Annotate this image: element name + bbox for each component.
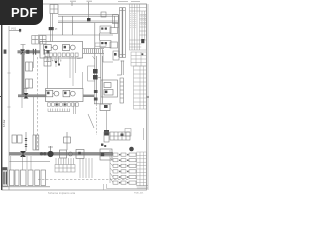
dashed battery-limit vertical bbox=[37, 57, 39, 150]
terminal dark dots bbox=[119, 154, 128, 184]
lower connection block bbox=[103, 50, 119, 62]
bottom filter box bbox=[60, 150, 85, 159]
dryer drop line bbox=[47, 66, 49, 89]
small table top of bottom-right bbox=[104, 132, 130, 142]
legend tanks bbox=[3, 170, 46, 186]
bypass loop bbox=[88, 66, 95, 81]
revision strip right middle bbox=[134, 66, 147, 109]
legend header dark bbox=[2, 167, 7, 170]
dark cell in small table bbox=[121, 134, 124, 137]
flange pair on pipe1 bbox=[33, 49, 34, 55]
top pipe 1 double line bbox=[58, 15, 118, 17]
skid2 motor dots bbox=[47, 92, 49, 95]
skid1 base squares row bbox=[45, 53, 78, 57]
window box pair above pipe1 bbox=[32, 36, 46, 45]
top tick marks bbox=[72, 2, 89, 18]
vertical gray pipe bbox=[22, 53, 25, 95]
bottom pump dark bbox=[47, 151, 53, 157]
sheet background bbox=[0, 0, 149, 198]
sheet border frame bbox=[2, 4, 147, 190]
valve cluster on pipe1: bowtie bbox=[20, 49, 25, 54]
pre-pipe components above bottom line bbox=[12, 132, 71, 151]
riser pair from window box to skid1 bbox=[50, 14, 52, 42]
drops from pipes to y35 line bbox=[63, 16, 73, 35]
legend top line bbox=[10, 161, 51, 163]
bottom right cluster box bbox=[100, 149, 112, 160]
fan-out bus bbox=[110, 150, 113, 183]
riser pair B bbox=[101, 53, 103, 104]
table dark dot bbox=[142, 53, 144, 55]
under-badge marks bbox=[9, 29, 20, 33]
stem and tee above valve bbox=[21, 45, 26, 50]
PDF badge bbox=[0, 0, 43, 25]
valve on pipe2 bbox=[24, 93, 29, 99]
short drain line bbox=[33, 55, 35, 68]
skid1 motor dots bbox=[45, 46, 47, 49]
condensate trap dark bbox=[104, 130, 109, 136]
small circles row under skid2 bbox=[48, 103, 79, 106]
flange pair on pipe bbox=[40, 152, 43, 155]
dashed condensate line bbox=[96, 104, 98, 135]
valve marks on riser bbox=[49, 27, 54, 30]
svg-text:PI: PI bbox=[55, 28, 58, 31]
dark dots in squares row bbox=[56, 103, 58, 105]
condensate vertical bbox=[106, 111, 108, 132]
bottom main pipe bbox=[9, 152, 113, 155]
skid2 outlet pipe bbox=[83, 95, 94, 97]
legend base line bbox=[2, 186, 50, 188]
comb below pipe bbox=[55, 158, 75, 172]
ticks below cooler bbox=[77, 56, 95, 59]
svg-text:1 2 3 4 5 6 7 8: 1 2 3 4 5 6 7 8 bbox=[46, 60, 62, 63]
downcomer to tall boxes bbox=[32, 97, 34, 135]
equipment cluster right: feed box bbox=[100, 15, 118, 49]
drain stub below pipe2 bbox=[21, 97, 23, 108]
top pipe 2 double line bbox=[58, 16, 118, 28]
left binding border dark bbox=[1, 24, 3, 190]
dark motor dots bbox=[101, 28, 103, 30]
filter box B on riser bbox=[26, 79, 33, 88]
label box above cooler bbox=[95, 43, 106, 46]
valve on riser A upper bbox=[93, 69, 98, 74]
window box mid (dryer) bbox=[44, 57, 51, 66]
drain tree valves bbox=[55, 61, 57, 63]
dark label box left edge bbox=[4, 50, 7, 54]
inner margin line bbox=[8, 26, 10, 190]
flange bars 2 bbox=[44, 49, 45, 55]
valve on riser A lower bbox=[93, 75, 98, 80]
page header marks bbox=[118, 1, 140, 3]
dark stamp cell in title block bbox=[141, 39, 144, 43]
aftercooler finned section bbox=[83, 49, 104, 54]
inset detail box bbox=[101, 80, 118, 97]
dashed enclosure bottom bbox=[38, 179, 130, 181]
main inlet pipe 1 bbox=[18, 50, 41, 53]
border step bottom-right bbox=[104, 184, 147, 190]
skid2 enclosure bbox=[46, 89, 84, 102]
trap outlet line bbox=[109, 132, 110, 134]
drain pair right of rows bbox=[74, 103, 76, 114]
skid1 motor box 1 bbox=[44, 45, 76, 51]
title block top-right grid bbox=[130, 4, 147, 50]
title block vertical text squiggles bbox=[131, 13, 146, 28]
instrument pair above hatched column bbox=[117, 61, 124, 76]
terminal grid rows bbox=[113, 153, 136, 184]
bottom valve bowtie bbox=[20, 151, 26, 157]
skid2 motor box 1 bbox=[46, 90, 75, 97]
drain tree below skid1 bbox=[56, 57, 83, 89]
small table under title block bbox=[131, 52, 147, 66]
window box top bbox=[50, 5, 58, 14]
riser pair A right of cooler bbox=[95, 23, 97, 104]
small junction box top bbox=[100, 12, 107, 41]
drain diagonal bbox=[88, 114, 94, 128]
filter box A on riser bbox=[26, 62, 33, 71]
horizontal line y35 bbox=[38, 34, 113, 36]
valve pair on riser bbox=[25, 138, 28, 141]
small valve on top vertical bbox=[87, 18, 91, 22]
stub to inset box bbox=[97, 77, 101, 79]
pump blob on pipe1 bbox=[26, 50, 29, 54]
small meter box on line bbox=[100, 104, 110, 111]
tiny valve marks bbox=[101, 144, 103, 146]
thin hatched column bbox=[120, 78, 124, 103]
legend tank stripes bbox=[3, 172, 4, 185]
scale note line right bbox=[143, 128, 145, 140]
svg-text:Schema impianto aria: Schema impianto aria bbox=[48, 192, 76, 195]
bottom-right fine lines bbox=[137, 4, 148, 190]
scale symbol box bbox=[125, 129, 131, 137]
fittings on riser A bbox=[94, 90, 98, 93]
comb row under circles bbox=[48, 109, 70, 112]
hanging lines right bbox=[80, 158, 92, 178]
under-badge dark mark bbox=[19, 29, 21, 32]
twin receiver columns bbox=[119, 8, 126, 58]
extra fitting on pipe1 bbox=[47, 50, 50, 54]
drops into legend area bbox=[11, 156, 31, 170]
svg-text:V-01: V-01 bbox=[11, 28, 17, 31]
centerline tick left border bbox=[0, 96, 3, 98]
centerline tick right border bbox=[147, 96, 150, 98]
svg-text:P&ID-001: P&ID-001 bbox=[134, 193, 144, 195]
skid1 enclosure bbox=[40, 42, 83, 59]
bottom right columns bbox=[137, 152, 147, 186]
main pipe 2 bbox=[18, 95, 46, 97]
header line under risers bbox=[94, 103, 112, 105]
dark pump blob right bbox=[129, 147, 134, 152]
svg-text:8.5 bar: 8.5 bar bbox=[3, 119, 6, 127]
